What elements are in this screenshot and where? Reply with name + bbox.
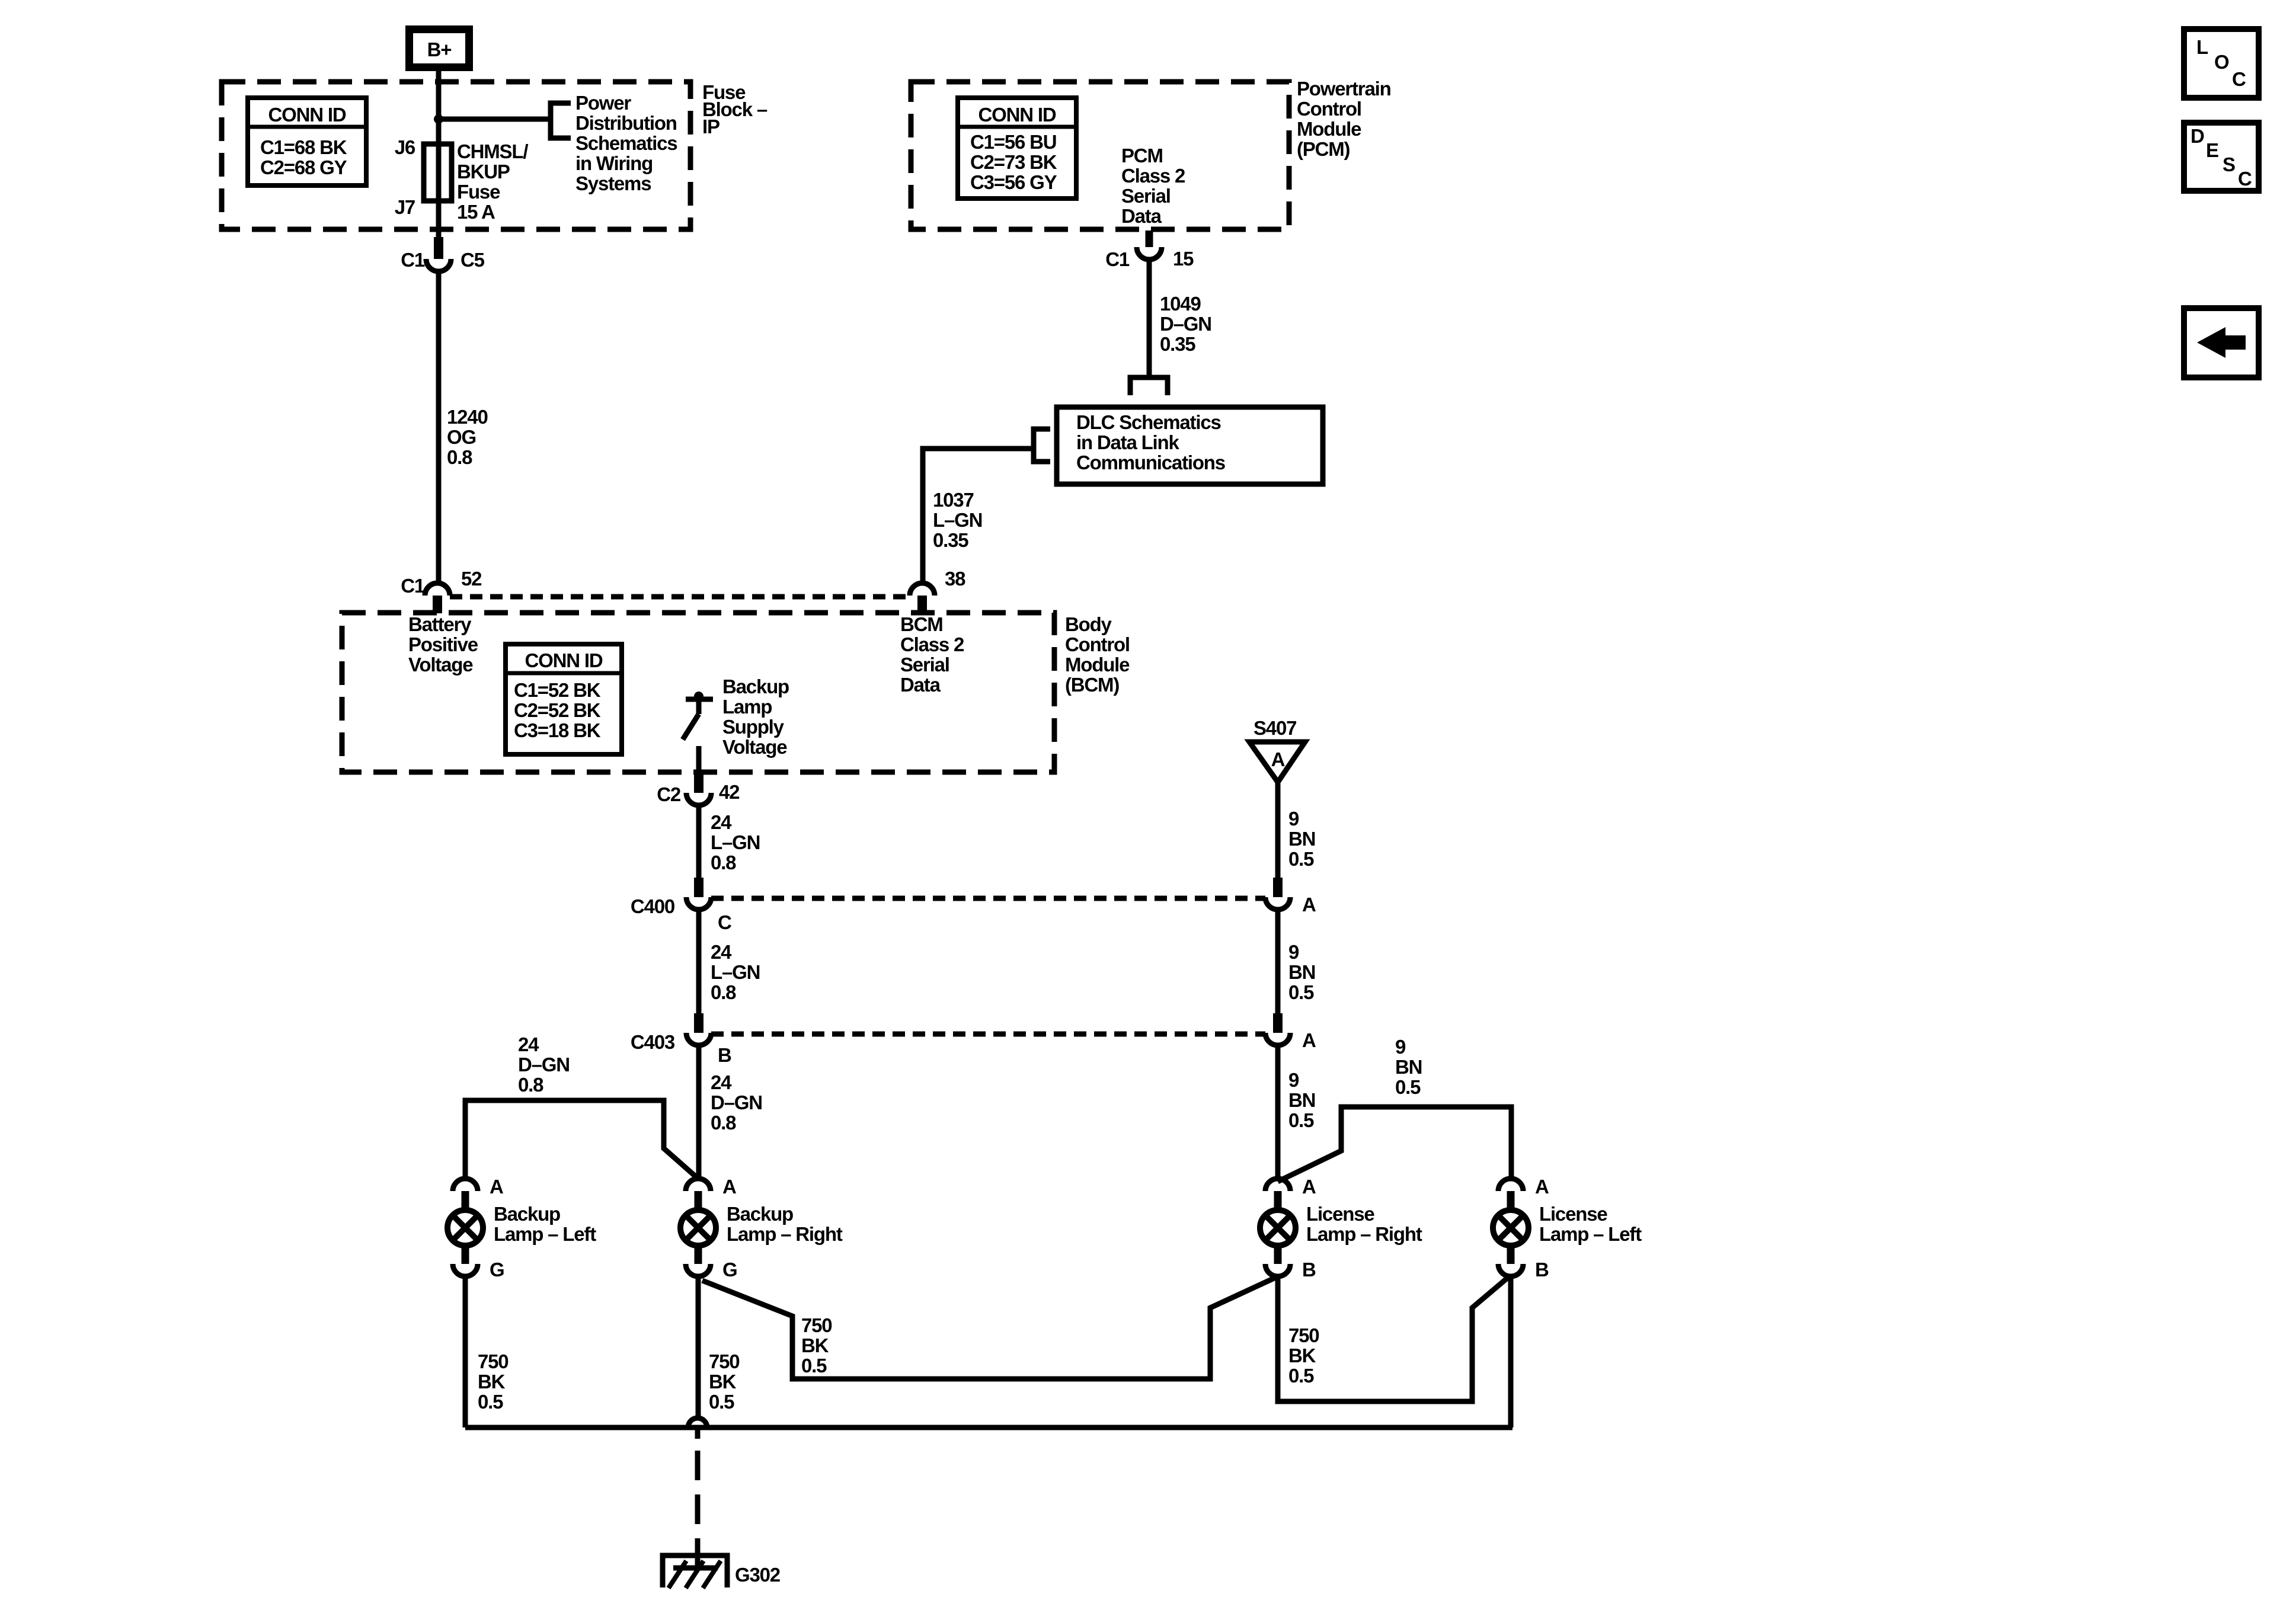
svg-text:A: A [1302, 1029, 1316, 1051]
svg-text:Lamp: Lamp [722, 696, 772, 718]
wire: dashed connector line C400 [711, 896, 1265, 901]
label: 9 BN 0.5 (S407) [1288, 808, 1315, 870]
module box: Powertrain Control Module (PCM) [911, 82, 1289, 229]
wire: branch license right to backup right ground [702, 1278, 1275, 1379]
module box: Fuse Block - IP [222, 82, 690, 229]
label: 1049 D-GN 0.35 [1160, 293, 1211, 355]
label: Battery Positive Voltage [408, 613, 478, 676]
svg-text:Backup: Backup [722, 676, 789, 697]
svg-text:CONN ID: CONN ID [268, 104, 346, 126]
svg-text:A: A [1302, 1176, 1316, 1198]
svg-text:BN: BN [1288, 961, 1315, 983]
fuse CHMSL/BKUP 15 A (J6-J7) [424, 144, 452, 201]
label: Backup Lamp - Left [494, 1203, 596, 1245]
svg-text:Lamp – Right: Lamp – Right [1306, 1223, 1422, 1245]
svg-text:0.8: 0.8 [711, 852, 736, 873]
svg-text:Control: Control [1065, 633, 1130, 655]
label: BCM Class 2 Serial Data [900, 613, 964, 696]
connector C403 pin A (right) [1265, 1013, 1316, 1051]
svg-text:0.5: 0.5 [1288, 1365, 1314, 1387]
svg-text:S407: S407 [1253, 717, 1296, 739]
wire: circuit 24 D-GN 0.8 (C403 to backup right) [696, 1045, 702, 1179]
lamp: License Lamp - Left (pins A/B) [1493, 1176, 1549, 1281]
svg-text:E: E [2206, 139, 2218, 161]
svg-text:Battery: Battery [408, 613, 472, 635]
connector C1/C5 (fuse block output) [401, 237, 484, 271]
svg-text:1037: 1037 [933, 489, 974, 511]
svg-text:0.8: 0.8 [447, 446, 472, 468]
svg-text:J7: J7 [395, 196, 415, 218]
svg-text:BK: BK [1288, 1345, 1316, 1366]
legend box: DESC [2184, 123, 2259, 191]
label: 750 BK 0.5 (splice branch) [801, 1314, 832, 1377]
svg-text:in Data Link: in Data Link [1076, 431, 1179, 453]
lamp: Backup Lamp - Right (pins A/G) [680, 1176, 737, 1281]
svg-text:Class 2: Class 2 [1121, 165, 1185, 187]
svg-text:C: C [718, 911, 731, 933]
svg-text:A: A [1302, 894, 1316, 916]
svg-text:0.5: 0.5 [478, 1391, 503, 1413]
svg-text:(PCM): (PCM) [1297, 138, 1350, 160]
svg-text:License: License [1539, 1203, 1607, 1225]
label: 750 BK 0.5 (backup left) [478, 1350, 508, 1413]
label: 9 BN 0.5 (to license left) [1395, 1036, 1422, 1098]
svg-text:C2=73 BK: C2=73 BK [970, 151, 1057, 173]
svg-text:C400: C400 [631, 895, 674, 917]
wire: feed to power distribution reference [439, 117, 551, 122]
label: 1240 OG 0.8 [447, 406, 488, 468]
svg-text:OG: OG [447, 426, 476, 448]
svg-text:A: A [1271, 748, 1285, 770]
svg-text:C1=56 BU: C1=56 BU [970, 131, 1056, 153]
svg-text:License: License [1306, 1203, 1374, 1225]
svg-text:Serial: Serial [900, 654, 949, 676]
svg-text:Lamp – Left: Lamp – Left [494, 1223, 596, 1245]
svg-text:O: O [2214, 51, 2229, 73]
svg-text:IP: IP [702, 116, 720, 137]
svg-text:CHMSL/: CHMSL/ [457, 140, 528, 162]
svg-text:in Wiring: in Wiring [575, 152, 653, 174]
connector C2 pin 42 (BCM) [657, 772, 740, 805]
lamp: Backup Lamp - Left (pins A/G) [447, 1176, 504, 1281]
svg-text:Module: Module [1065, 654, 1130, 676]
svg-text:PCM: PCM [1121, 145, 1163, 167]
legend box: LOC [2184, 29, 2259, 98]
svg-text:S: S [2223, 153, 2235, 175]
svg-text:750: 750 [801, 1314, 832, 1336]
svg-text:0.5: 0.5 [709, 1391, 734, 1413]
svg-text:9: 9 [1395, 1036, 1406, 1058]
svg-text:750: 750 [1288, 1324, 1319, 1346]
wire: circuit 24 L-GN 0.8 (BCM to C400) [696, 805, 702, 878]
svg-text:C1: C1 [401, 575, 425, 597]
lamp: License Lamp - Right (pins A/B) [1260, 1176, 1316, 1281]
svg-text:750: 750 [478, 1350, 508, 1372]
svg-text:C: C [2238, 168, 2252, 190]
svg-text:BCM: BCM [900, 613, 943, 635]
svg-text:Backup: Backup [494, 1203, 560, 1225]
svg-text:38: 38 [945, 568, 965, 590]
svg-text:24: 24 [518, 1033, 539, 1055]
svg-text:A: A [722, 1176, 736, 1198]
svg-text:CONN ID: CONN ID [525, 649, 603, 671]
svg-text:750: 750 [709, 1350, 739, 1372]
bracket: DLC reference (top) [1130, 377, 1168, 395]
svg-text:C2: C2 [657, 783, 681, 805]
svg-text:Lamp – Left: Lamp – Left [1539, 1223, 1642, 1245]
svg-text:9: 9 [1288, 941, 1299, 963]
svg-text:Communications: Communications [1076, 452, 1225, 473]
bracket: DLC reference (left) [1034, 429, 1050, 462]
svg-text:9: 9 [1288, 808, 1299, 830]
svg-text:G302: G302 [735, 1564, 781, 1586]
svg-text:BN: BN [1288, 1089, 1315, 1111]
wire: circuit 9 BN 0.5 (C403A to license lamps) [1275, 1045, 1281, 1179]
label: Backup Lamp Supply Voltage [722, 676, 789, 758]
switch: backup lamp supply driver (BCM internal) [683, 692, 713, 772]
svg-text:C3=56 GY: C3=56 GY [970, 171, 1057, 193]
connector C1 pin 52 (BCM) [401, 568, 482, 613]
label: Backup Lamp - Right [727, 1203, 843, 1245]
svg-text:0.5: 0.5 [801, 1355, 827, 1377]
connector C400 pin A (right) [1265, 878, 1316, 916]
svg-text:Lamp – Right: Lamp – Right [727, 1223, 843, 1245]
svg-text:1049: 1049 [1160, 293, 1201, 315]
svg-text:L–GN: L–GN [711, 961, 760, 983]
svg-text:Backup: Backup [727, 1203, 793, 1225]
svg-text:BN: BN [1395, 1056, 1422, 1078]
label: PCM Class 2 Serial Data [1121, 145, 1185, 227]
svg-text:C1=68 BK: C1=68 BK [260, 136, 347, 158]
svg-text:C403: C403 [631, 1031, 675, 1053]
svg-text:CONN ID: CONN ID [978, 104, 1056, 126]
wire: circuit 24 L-GN 0.8 (C400 to C403) [696, 910, 702, 1013]
label: 24 D-GN 0.8 (left) [518, 1033, 570, 1096]
svg-text:C1: C1 [401, 249, 425, 271]
wire: circuit 750 BK 0.5 (backup left ground) [463, 1276, 468, 1427]
label: 750 BK 0.5 (license right) [1288, 1324, 1319, 1387]
svg-text:0.5: 0.5 [1288, 981, 1314, 1003]
svg-text:Module: Module [1297, 118, 1361, 140]
wire: license left ground drop [1508, 1279, 1514, 1427]
wire: circuit 1240 OG 0.8 [436, 271, 442, 584]
svg-text:C3=18 BK: C3=18 BK [514, 719, 601, 741]
svg-text:D–GN: D–GN [711, 1092, 762, 1113]
label: 24 L-GN 0.8 (upper) [711, 811, 760, 873]
wire: license right to license left ground loop [1278, 1275, 1511, 1401]
label: License Lamp - Left [1539, 1203, 1642, 1245]
svg-text:J6: J6 [395, 136, 415, 158]
svg-text:L–GN: L–GN [933, 509, 982, 531]
wire: circuit 9 BN 0.5 (S407 down) [1275, 782, 1281, 878]
svg-text:Supply: Supply [722, 716, 785, 738]
svg-text:Systems: Systems [575, 172, 651, 194]
svg-text:0.35: 0.35 [1160, 333, 1195, 355]
svg-text:A: A [1535, 1176, 1549, 1198]
label: 9 BN 0.5 (middle) [1288, 941, 1315, 1003]
label: 1037 L-GN 0.35 [933, 489, 982, 551]
svg-text:Fuse: Fuse [457, 181, 500, 203]
svg-text:B: B [1302, 1259, 1316, 1281]
svg-text:B: B [718, 1044, 731, 1066]
label: 750 BK 0.5 (backup right) [709, 1350, 739, 1413]
svg-text:B+: B+ [427, 39, 452, 60]
svg-text:Distribution: Distribution [575, 112, 677, 134]
svg-text:C: C [2232, 68, 2246, 90]
svg-text:Body: Body [1065, 613, 1112, 635]
svg-text:DLC Schematics: DLC Schematics [1076, 411, 1221, 433]
reference box: DLC Schematics in Data Link Communications [1057, 407, 1323, 484]
svg-text:C1: C1 [1105, 248, 1130, 270]
svg-text:0.8: 0.8 [518, 1074, 543, 1096]
bracket: power distribution reference [551, 103, 571, 138]
svg-text:L: L [2196, 36, 2208, 58]
label: 9 BN 0.5 (to license right) [1288, 1069, 1315, 1131]
wire: circuit 750 BK 0.5 (backup right ground) [696, 1276, 701, 1419]
wire: circuit 1037 L-GN 0.35 [923, 449, 1034, 584]
wire: dashed connector line C403 [711, 1032, 1265, 1037]
svg-text:D–GN: D–GN [1160, 313, 1211, 335]
svg-text:0.8: 0.8 [711, 1112, 736, 1134]
svg-text:Data: Data [1121, 205, 1162, 227]
svg-text:Positive: Positive [408, 633, 478, 655]
svg-text:C2=68 GY: C2=68 GY [260, 156, 347, 178]
svg-text:(BCM): (BCM) [1065, 674, 1119, 696]
svg-text:0.35: 0.35 [933, 529, 968, 551]
svg-text:24: 24 [711, 941, 732, 963]
wire: dotted harness line pin 52 to pin 38 [450, 594, 910, 600]
svg-text:42: 42 [719, 781, 740, 803]
svg-text:24: 24 [711, 811, 732, 833]
wire: circuit 9 BN 0.5 (C400A to C403A) [1275, 910, 1281, 1013]
connector C1 pin 15 (PCM) [1105, 231, 1194, 270]
svg-text:BN: BN [1288, 828, 1315, 850]
svg-text:C5: C5 [461, 249, 485, 271]
svg-text:Voltage: Voltage [722, 736, 787, 758]
svg-text:BK: BK [709, 1371, 737, 1393]
label: Fuse Block - IP [702, 81, 768, 137]
svg-text:A: A [490, 1176, 503, 1198]
label: Power Distribution Schematics in Wiring Systems [575, 92, 677, 194]
svg-text:0.5: 0.5 [1288, 848, 1314, 870]
svg-text:C2=52 BK: C2=52 BK [514, 699, 601, 721]
wire: B+ feed to fuse J6/J7 [436, 71, 442, 241]
label: CHMSL/BKUP Fuse 15 A [457, 140, 528, 223]
wire: circuit 1049 D-GN 0.35 [1147, 260, 1152, 377]
svg-text:Serial: Serial [1121, 185, 1171, 207]
module box: Body Control Module (BCM) [342, 613, 1054, 772]
svg-text:Power: Power [575, 92, 631, 114]
svg-text:1240: 1240 [447, 406, 488, 428]
svg-text:L–GN: L–GN [711, 831, 760, 853]
svg-text:0.8: 0.8 [711, 981, 736, 1003]
wire: dashed ground lead to G302 [695, 1427, 701, 1439]
svg-text:Voltage: Voltage [408, 654, 473, 676]
svg-text:15: 15 [1173, 248, 1194, 270]
svg-text:C1=52 BK: C1=52 BK [514, 679, 601, 701]
svg-text:0.5: 0.5 [1395, 1076, 1421, 1098]
label: 24 D-GN 0.8 (right) [711, 1071, 762, 1134]
svg-text:0.5: 0.5 [1288, 1109, 1314, 1131]
wire: branch to license lamp left [1278, 1107, 1511, 1182]
connector ID table (BCM) [506, 644, 622, 754]
splice S407 [1249, 717, 1305, 782]
node: ground splice hump on bus [688, 1418, 707, 1427]
wire: branch 24 D-GN 0.8 to backup lamp left [465, 1100, 699, 1179]
svg-text:BK: BK [478, 1371, 506, 1393]
svg-text:D: D [2191, 125, 2204, 147]
svg-text:Control: Control [1297, 98, 1361, 120]
connector ID table (fuse block) [248, 98, 366, 185]
svg-text:15 A: 15 A [457, 201, 495, 223]
svg-text:Schematics: Schematics [575, 132, 677, 154]
label: Body Control Module (BCM) [1065, 613, 1130, 696]
label: License Lamp - Right [1306, 1203, 1422, 1245]
connector ID table (PCM) [958, 98, 1076, 199]
label: 24 L-GN 0.8 (lower) [711, 941, 760, 1003]
wire: ground bus to G302 [465, 1425, 1512, 1430]
svg-text:52: 52 [461, 568, 482, 590]
node: splice at fuse block feed [434, 114, 443, 124]
svg-text:24: 24 [711, 1071, 732, 1093]
ground G302 [663, 1539, 781, 1588]
connector pin 38 (BCM) [910, 568, 965, 613]
label: Powertrain Control Module (PCM) [1297, 78, 1391, 160]
svg-text:BKUP: BKUP [457, 161, 510, 183]
connector C400 pin C [631, 878, 731, 933]
svg-text:D–GN: D–GN [518, 1054, 570, 1076]
legend box: back arrow [2184, 308, 2259, 377]
svg-text:G: G [722, 1259, 737, 1281]
power terminal B+ [405, 25, 473, 71]
svg-text:B: B [1535, 1259, 1549, 1281]
svg-text:Data: Data [900, 674, 941, 696]
svg-text:Powertrain: Powertrain [1297, 78, 1391, 100]
svg-text:G: G [490, 1259, 504, 1281]
svg-text:Class 2: Class 2 [900, 633, 964, 655]
connector C403 pin B [631, 1013, 731, 1066]
svg-text:BK: BK [801, 1334, 829, 1356]
svg-text:9: 9 [1288, 1069, 1299, 1091]
